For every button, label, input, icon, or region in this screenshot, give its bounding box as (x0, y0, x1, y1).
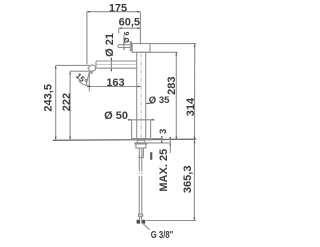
dim 163 line (87, 86, 141, 88)
svg-text:Ø 6: Ø 6 (124, 31, 131, 42)
dim Ø50 extension right (150, 120, 152, 139)
angle 15 arc (79, 81, 90, 86)
aerator tip (89, 72, 92, 74)
arrows 60,5 (119, 27, 122, 29)
dim max25 extension (147, 142, 171, 144)
dim 175/60,5 extension right (139, 12, 141, 45)
stud nut (dark) (150, 152, 152, 160)
dim 365,3 bottom extension (146, 220, 196, 222)
dim 222 extension (70, 70, 89, 72)
end fitting nut (dark) (137, 220, 141, 224)
dim max25 line (169, 137, 171, 153)
dim Ø6 leader (123, 35, 125, 49)
dim 3 extension (152, 138, 164, 140)
column body (137, 52, 146, 139)
arrows 222 (69, 71, 71, 74)
countertop deck line (53, 139, 196, 140)
dim 222 line (69, 71, 71, 140)
arrows Ø6 (123, 43, 125, 45)
spout tube (95, 61, 137, 68)
mounting nut (136, 144, 146, 148)
arrows 175 (87, 11, 90, 13)
threaded shank (137, 140, 144, 143)
lever disc (130, 42, 131, 51)
dim 60,5 line (119, 27, 141, 29)
svg-text:MAX. 25: MAX. 25 (158, 149, 170, 192)
svg-text:Ø 35: Ø 35 (149, 95, 170, 106)
dim 314 extension (150, 43, 196, 45)
column centerline (140, 54, 142, 140)
washer (135, 143, 147, 144)
dim 3 line (161, 137, 163, 144)
hose tail (140, 216, 142, 219)
cartridge cap (132, 44, 150, 53)
arrows Ø50 (129, 119, 132, 121)
arrows max25 (170, 137, 172, 140)
arrows 163 (87, 86, 90, 88)
dim Ø21 leader (110, 58, 112, 71)
dim 283 extension (146, 51, 178, 53)
supply hose (139, 148, 142, 214)
hose collar (138, 214, 142, 216)
arrows 243,5 (55, 65, 57, 68)
arrows Ø21 (111, 58, 113, 61)
leader G3/8 (142, 223, 149, 230)
dim 314/365,3 line (193, 44, 195, 221)
arrows 283 (175, 52, 177, 55)
dim 175 line (87, 11, 140, 13)
angle 15 vertical ray (88, 73, 90, 92)
svg-text:243,5: 243,5 (43, 84, 55, 112)
svg-text:Ø 50: Ø 50 (104, 110, 128, 122)
dim 243,5 line (55, 65, 57, 140)
arrows dim 3 (161, 136, 163, 139)
svg-text:283: 283 (166, 77, 178, 95)
dim 283 line (175, 52, 177, 140)
arrowheads (55, 11, 196, 221)
dim Ø50 extension left (131, 120, 133, 139)
dim 243,5 extension (56, 64, 90, 66)
dim Ø35 leader (146, 102, 154, 104)
svg-text:175: 175 (109, 2, 127, 14)
outlet nozzle (88, 65, 96, 72)
angle 15 tilted ray (86, 73, 89, 86)
svg-text:3: 3 (158, 129, 169, 134)
base plate (132, 139, 151, 140)
arrow Ø35 (146, 103, 149, 105)
hose break marks (139, 173, 143, 175)
svg-text:365,3: 365,3 (182, 166, 194, 194)
dim Ø50 line (128, 119, 155, 121)
svg-text:60,5: 60,5 (119, 17, 140, 29)
fixing stud L (139, 148, 143, 158)
dim 175 extension left (86, 12, 88, 65)
lever rod Ø6 (118, 45, 131, 48)
spout centerline (97, 64, 136, 66)
svg-text:222: 222 (61, 93, 73, 111)
svg-text:Ø 21: Ø 21 (104, 33, 116, 57)
arrows 314/365,3 (194, 44, 196, 47)
svg-text:163: 163 (106, 77, 124, 89)
dim 60,5 extension left (118, 28, 120, 33)
svg-text:314: 314 (185, 97, 197, 116)
svg-text:G 3/8": G 3/8" (151, 229, 174, 241)
